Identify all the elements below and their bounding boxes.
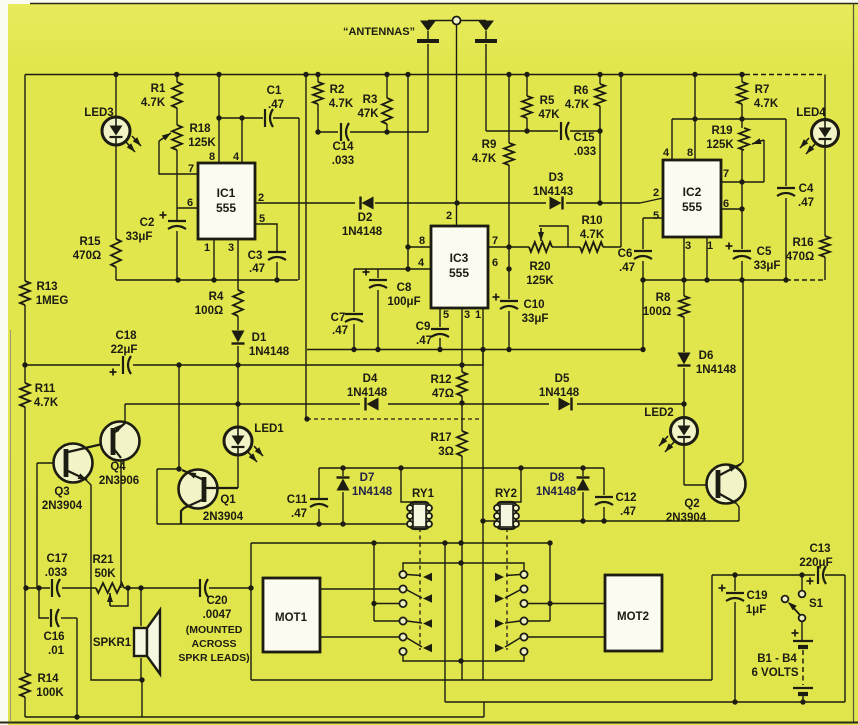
wire IC1 pin7 wiper bracket [159, 133, 198, 174]
svg-text:8: 8 [419, 235, 425, 247]
svg-text:C19: C19 [746, 590, 767, 602]
capacitor C11 [287, 494, 328, 520]
wire IC1 pin8 column [218, 75, 220, 164]
resistor R5 [522, 95, 560, 121]
potentiometer R21 [92, 554, 124, 593]
svg-text:.033: .033 [574, 146, 596, 158]
wire C6 IC2 pin5 branch [643, 218, 663, 350]
svg-text:R10: R10 [581, 215, 602, 227]
wire IC3 pin8 stub [408, 246, 431, 248]
IC2 pin 7 label [723, 168, 729, 180]
antenna symbol [343, 17, 497, 42]
resistor R9 [472, 139, 514, 165]
resistor R2 [313, 82, 354, 110]
diode D7 [337, 472, 393, 498]
svg-text:8: 8 [209, 151, 215, 163]
svg-text:4.7K: 4.7K [34, 397, 59, 409]
svg-text:C8: C8 [397, 282, 412, 294]
capacitor C6 [618, 248, 652, 274]
svg-text:C18: C18 [115, 330, 137, 342]
svg-text:Q2: Q2 [684, 498, 699, 510]
svg-text:C9: C9 [416, 321, 431, 333]
svg-text:C13: C13 [809, 543, 830, 555]
wire R5 column [526, 75, 528, 132]
svg-text:1N4148: 1N4148 [696, 364, 737, 376]
svg-text:4.7K: 4.7K [472, 153, 497, 165]
svg-text:.47: .47 [332, 325, 348, 337]
IC1 pin 4 label [233, 151, 240, 163]
wire IC1 ground bus [116, 279, 298, 281]
svg-text:125K: 125K [706, 139, 734, 151]
wire RY1 drive bus [157, 523, 411, 525]
wire IC1 pin6 stub [177, 207, 198, 209]
svg-text:555: 555 [449, 266, 469, 280]
svg-text:2N3904: 2N3904 [666, 512, 707, 524]
wire C12 branch [603, 468, 605, 521]
svg-text:4.7K: 4.7K [329, 98, 354, 110]
relay RY1 contacts [399, 571, 432, 655]
svg-text:33μF: 33μF [522, 313, 549, 325]
wire IC1 pin5 branch [255, 224, 277, 280]
wire IC2 pin3 R8 D6 column [683, 237, 685, 404]
wire RY1 RY2 bottom contact bracket [403, 655, 524, 661]
wire IC3 pin5 C9 branch [439, 308, 441, 350]
wire C14 bus [318, 131, 428, 133]
relay RY2 coil [494, 488, 519, 529]
svg-text:47Ω: 47Ω [432, 388, 454, 400]
wire IC2 pin4 branch [672, 119, 786, 160]
resistor R17 [430, 431, 467, 458]
IC3 pin 7 label [492, 235, 498, 247]
svg-text:R17: R17 [430, 432, 451, 444]
svg-text:R15: R15 [79, 236, 101, 248]
border frame [30, 3, 858, 5]
svg-text:R18: R18 [189, 123, 211, 135]
svg-text:3: 3 [464, 309, 470, 321]
capacitor C12 [595, 492, 637, 518]
wire MOT1 upper lead [320, 588, 399, 590]
potentiometer R19 [706, 125, 749, 151]
wire contact frame top [251, 542, 551, 544]
resistor R11 [20, 383, 59, 409]
svg-text:R5: R5 [540, 95, 555, 107]
wire Q3 base branch [37, 463, 64, 588]
svg-text:R19: R19 [711, 125, 732, 137]
wire D4 D5 bus [125, 403, 684, 405]
svg-text:RY1: RY1 [412, 488, 435, 500]
wire RY2 pole frame [528, 543, 550, 621]
svg-text:.47: .47 [291, 508, 307, 520]
svg-text:125K: 125K [188, 137, 216, 149]
capacitor C19 [719, 585, 768, 617]
LED2 [644, 407, 697, 452]
wire Q1 emitter branch [157, 469, 178, 524]
diode D6 [678, 350, 737, 376]
wire R10 right riser [603, 75, 621, 248]
svg-text:.47: .47 [249, 263, 265, 275]
capacitor C8 [363, 269, 421, 309]
svg-text:7: 7 [723, 168, 729, 180]
svg-text:C15: C15 [573, 132, 595, 144]
resistor R4 [195, 290, 243, 317]
svg-text:2: 2 [258, 192, 264, 204]
wire Q2 base from LED2 [684, 445, 716, 485]
svg-text:R14: R14 [37, 673, 59, 685]
svg-text:R12: R12 [430, 374, 451, 386]
transistor Q3 [42, 442, 111, 512]
svg-text:D5: D5 [555, 373, 570, 385]
svg-text:R8: R8 [656, 292, 671, 304]
svg-text:R7: R7 [755, 84, 770, 96]
svg-text:C14: C14 [332, 141, 354, 153]
wire Q4 top lead riser [124, 404, 126, 423]
svg-text:C16: C16 [43, 631, 64, 643]
svg-text:4: 4 [233, 151, 240, 163]
wire dashed link [307, 418, 480, 420]
diode D3 [533, 172, 573, 210]
wire RY1 pole frame [374, 543, 399, 621]
wire IC3 pin4 bus [354, 268, 431, 270]
potentiometer R18 [172, 123, 216, 150]
svg-text:C10: C10 [523, 299, 544, 311]
svg-text:R4: R4 [209, 291, 224, 303]
svg-text:1N4148: 1N4148 [347, 387, 388, 399]
svg-text:.01: .01 [48, 645, 65, 657]
IC1 pin 3 label [228, 242, 234, 254]
wire C18 bus ground riser [462, 350, 483, 366]
svg-text:R20: R20 [529, 261, 550, 273]
svg-text:47K: 47K [357, 108, 379, 120]
wire R3 column [386, 75, 388, 133]
svg-text:2N3904: 2N3904 [42, 500, 83, 512]
svg-text:MOT1: MOT1 [275, 612, 308, 624]
resistor R16 [786, 236, 830, 263]
wire inter-relay column [444, 543, 446, 702]
wire RY2 armature linkage [506, 528, 508, 650]
wire speaker leads [140, 588, 142, 680]
svg-text:Q1: Q1 [220, 494, 236, 506]
resistor R15 [73, 236, 121, 267]
svg-text:1μF: 1μF [746, 604, 766, 616]
wire LED4 R16 column [824, 75, 826, 281]
svg-text:125K: 125K [526, 275, 554, 287]
IC2 pin 8 label [687, 147, 693, 159]
svg-text:2: 2 [446, 210, 452, 222]
svg-text:D8: D8 [550, 472, 565, 484]
svg-text:C20: C20 [206, 595, 227, 607]
wire R9 C10 column [508, 75, 510, 350]
wire C5 column [741, 209, 743, 280]
transistor Q4 [99, 422, 140, 488]
svg-text:R6: R6 [574, 85, 589, 97]
wire C4 column [785, 119, 787, 280]
wire IC3 pin7 stub [488, 246, 529, 248]
wire R19 wiper riser [752, 138, 764, 182]
svg-text:7: 7 [492, 235, 498, 247]
svg-text:IC3: IC3 [450, 251, 469, 265]
wire RY1 coil top lead [401, 468, 412, 502]
wire IC3 pin3 R12 R17 column [461, 308, 463, 680]
svg-text:1MEG: 1MEG [36, 295, 69, 307]
wire audio bus y588 [25, 587, 251, 589]
svg-text:3Ω: 3Ω [438, 446, 454, 458]
wire IC3 pin1 column [482, 308, 484, 680]
resistor R7 [737, 82, 779, 110]
resistor R14 [20, 673, 64, 699]
svg-text:C1: C1 [267, 85, 282, 97]
svg-text:.47: .47 [619, 262, 635, 274]
IC1 pin 6 label [187, 197, 193, 209]
svg-text:R11: R11 [35, 383, 56, 395]
svg-text:1N4143: 1N4143 [533, 186, 573, 198]
resistor R12 [430, 372, 467, 400]
svg-text:22μF: 22μF [111, 344, 138, 356]
wire antenna coupling column [305, 75, 307, 420]
IC2 pin 3 label [685, 240, 691, 252]
svg-text:D7: D7 [360, 472, 375, 484]
svg-text:4.7K: 4.7K [565, 99, 590, 111]
svg-text:R9: R9 [482, 139, 497, 151]
IC3 pin 4 label [418, 257, 425, 269]
wire left antenna riser [427, 44, 429, 132]
svg-text:LED1: LED1 [254, 423, 284, 435]
capacitor C4 [777, 183, 814, 209]
svg-text:8: 8 [687, 147, 693, 159]
svg-text:C11: C11 [287, 494, 308, 506]
wire LED1 to Q1 collector [206, 455, 238, 488]
diode D8 [536, 472, 590, 498]
svg-text:33μF: 33μF [754, 260, 781, 272]
svg-text:1: 1 [475, 309, 481, 321]
wire C11 branch [318, 468, 320, 524]
svg-text:D1: D1 [252, 332, 267, 344]
wire IC2 pin6 stub [721, 208, 742, 210]
capacitor C18 [110, 330, 138, 376]
svg-text:1N4148: 1N4148 [539, 387, 580, 399]
svg-text:555: 555 [682, 200, 702, 214]
svg-text:C3: C3 [248, 250, 263, 262]
capacitor C17 [45, 553, 68, 597]
wire battery feed riser [711, 575, 713, 680]
wire D7 D8 relay bus [319, 467, 604, 469]
svg-text:4.7K: 4.7K [141, 97, 166, 109]
svg-text:D3: D3 [549, 172, 564, 184]
svg-text:IC1: IC1 [217, 186, 236, 200]
capacitor C16 [43, 609, 64, 657]
speaker SPKR1 [93, 610, 160, 674]
diode D2 [342, 197, 383, 239]
resistor R13 [20, 281, 68, 307]
IC1 pin 1 label [204, 242, 210, 254]
resistor R6 [565, 84, 605, 111]
relay RY2 contacts [495, 571, 528, 655]
wire C16 branch [39, 588, 77, 717]
svg-text:3: 3 [685, 240, 691, 252]
svg-text:7: 7 [188, 163, 194, 175]
IC1 pin 5 label [259, 213, 265, 225]
svg-text:5: 5 [653, 210, 659, 222]
resistor R1 [141, 82, 182, 109]
wire IC2 pin8 column [694, 75, 696, 161]
svg-text:.47: .47 [268, 99, 284, 111]
svg-text:R21: R21 [92, 554, 114, 566]
wire R20 R10 link [552, 246, 580, 248]
wire C8 branch [377, 269, 379, 350]
IC3 pin 6 label [492, 257, 498, 269]
resistor R8 [643, 292, 689, 318]
svg-text:Q3: Q3 [54, 486, 69, 498]
svg-text:R13: R13 [36, 281, 57, 293]
wire left supply rail [24, 75, 26, 718]
potentiometer R20 [526, 242, 554, 287]
svg-text:.47: .47 [416, 335, 432, 347]
wire D7 column [342, 468, 344, 524]
wire RY1 armature linkage [419, 528, 421, 650]
IC2 pin 1 label [707, 240, 713, 252]
resistor R3 [357, 94, 392, 124]
svg-text:(MOUNTED: (MOUNTED [186, 624, 243, 636]
svg-text:C4: C4 [799, 183, 814, 195]
wire bottom ground rail left [25, 702, 484, 717]
wire IC1 pin3 R4 D1 column [237, 239, 239, 427]
wire right antenna riser [485, 44, 487, 131]
IC3 pin 5 label [443, 309, 449, 321]
wire Q3 emitter drop [86, 480, 142, 717]
svg-text:4: 4 [663, 147, 670, 159]
svg-text:6 VOLTS: 6 VOLTS [751, 667, 798, 679]
svg-text:LED4: LED4 [796, 107, 826, 119]
IC1 pin 2 label [258, 192, 264, 204]
diode D4 [347, 373, 388, 411]
LED4 [796, 107, 838, 154]
svg-text:RY2: RY2 [495, 488, 517, 500]
capacitor C10 [493, 294, 549, 326]
wire MOT2 lower lead [528, 636, 605, 638]
wire Q1 emitter riser [178, 365, 180, 469]
svg-text:50K: 50K [94, 568, 116, 580]
wire trigger bus [255, 198, 663, 203]
svg-text:.0047: .0047 [203, 609, 232, 621]
wire Q2 emitter lead [736, 503, 739, 521]
wire C1 branch [219, 118, 299, 280]
svg-text:1: 1 [204, 242, 210, 254]
svg-text:6: 6 [723, 198, 729, 210]
wire IC3 ground rail [307, 349, 643, 351]
IC2 pin 6 label [723, 198, 729, 210]
capacitor C3 [248, 250, 286, 275]
wire RY1 RY2 top contact bracket [403, 563, 524, 571]
wire C15 bus [486, 130, 600, 132]
wire RY2 drive bus [483, 520, 739, 522]
wire R6 column [599, 75, 601, 204]
wire Q4 bottom lead drop [120, 458, 122, 588]
svg-text:4.7K: 4.7K [754, 98, 779, 110]
IC2 pin 4 label [663, 147, 670, 159]
svg-text:1N4148: 1N4148 [536, 486, 577, 498]
diode D5 [539, 373, 580, 411]
svg-text:IC2: IC2 [683, 185, 702, 199]
svg-text:LED2: LED2 [644, 407, 673, 419]
svg-text:MOT2: MOT2 [617, 611, 649, 623]
svg-text:5: 5 [443, 309, 449, 321]
wire C19 column [734, 575, 736, 702]
wire R7 R19 column [741, 75, 743, 210]
svg-text:R16: R16 [792, 237, 813, 249]
wire MOT1 lower lead [320, 636, 399, 638]
svg-text:470Ω: 470Ω [786, 251, 814, 263]
svg-text:220μF: 220μF [799, 557, 832, 569]
svg-text:.47: .47 [798, 197, 814, 209]
motor MOT2 [605, 575, 662, 651]
IC1 pin 7 label [188, 163, 194, 175]
svg-text:3: 3 [228, 242, 234, 254]
svg-text:C2: C2 [140, 217, 155, 229]
LED3 [84, 107, 141, 152]
wire LED2 column [683, 404, 685, 418]
timer IC2 [663, 160, 721, 237]
capacitor C1 [265, 85, 284, 127]
capacitor C7 [331, 312, 363, 337]
wire IC1 pin1 stub [213, 239, 215, 280]
svg-text:6: 6 [492, 257, 498, 269]
capacitor C14 [332, 123, 354, 167]
wire bottom ground rail right [445, 701, 845, 703]
wire R21 wiper bracket [107, 588, 128, 606]
svg-text:ACROSS: ACROSS [192, 638, 237, 650]
LED1 [224, 423, 284, 462]
capacitor C15 [561, 122, 596, 158]
diode D1 [232, 331, 290, 359]
svg-text:1N4148: 1N4148 [249, 346, 290, 358]
svg-text:5: 5 [259, 213, 265, 225]
svg-text:C6: C6 [618, 248, 633, 260]
IC3 pin 1 label [475, 309, 481, 321]
svg-text:2N3906: 2N3906 [99, 475, 139, 487]
wire IC3 Vcc column [407, 75, 409, 270]
svg-text:100μF: 100μF [387, 296, 420, 308]
IC2 pin 2 label [653, 187, 659, 199]
svg-text:B1 - B4: B1 - B4 [757, 653, 797, 665]
timer IC3 [431, 226, 488, 308]
wire IC2 pin1 stub [706, 237, 708, 280]
svg-text:D2: D2 [358, 212, 373, 224]
svg-text:S1: S1 [809, 598, 824, 610]
svg-text:.47: .47 [620, 506, 636, 518]
wire relay commons bus [251, 679, 712, 681]
svg-text:100Ω: 100Ω [195, 305, 223, 317]
wire IC1 pin4 stub [241, 118, 243, 163]
wire Vcc top rail [25, 74, 825, 76]
transistor Q1 [179, 470, 244, 525]
svg-text:555: 555 [216, 201, 236, 215]
svg-text:LED3: LED3 [84, 107, 113, 119]
wire LED3 branch [115, 75, 117, 281]
svg-text:1: 1 [707, 240, 713, 252]
capacitor C20 [178, 579, 249, 664]
svg-text:470Ω: 470Ω [73, 250, 101, 262]
svg-text:R1: R1 [151, 83, 166, 95]
svg-text:33μF: 33μF [126, 231, 153, 243]
svg-text:C12: C12 [615, 492, 636, 504]
capacitor C9 [416, 321, 449, 347]
svg-text:Q4: Q4 [110, 461, 126, 473]
IC3 pin 2 label [446, 210, 452, 222]
svg-text:4: 4 [418, 257, 425, 269]
svg-text:47K: 47K [538, 109, 560, 121]
battery B1-B4 [751, 630, 813, 703]
svg-text:C5: C5 [757, 246, 772, 258]
svg-text:.033: .033 [45, 567, 67, 579]
